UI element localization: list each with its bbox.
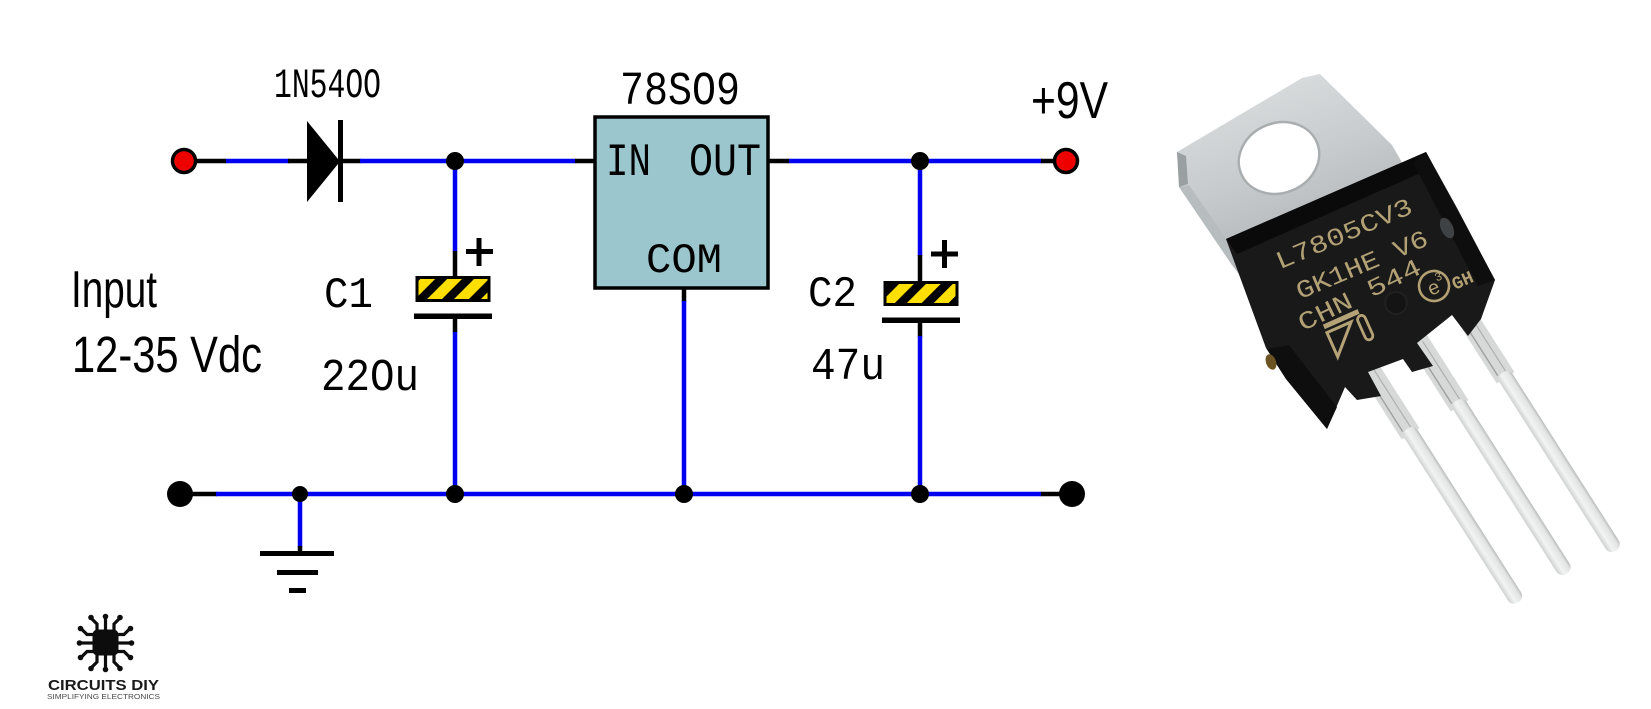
svg-text:COM: COM <box>646 237 722 285</box>
wire IN pin stub <box>575 159 595 164</box>
wire top rail blue right <box>789 159 1042 164</box>
bottom left terminal <box>167 481 193 507</box>
wire C1 vertical blue lower <box>453 332 458 492</box>
regulator U1 78S09 <box>595 117 768 288</box>
wire black at output terminal <box>1041 159 1056 164</box>
svg-text:+9V: +9V <box>1031 72 1108 130</box>
node junction rail C2 <box>911 485 929 503</box>
pin1 dimple <box>1384 291 1408 315</box>
wire diode anode lead <box>288 159 308 164</box>
svg-text:C1: C1 <box>324 271 373 321</box>
leg 1 <box>1359 361 1527 608</box>
wire C1 black into top plate <box>453 251 458 276</box>
ST logo <box>1324 310 1375 357</box>
logo chip icon <box>81 618 130 668</box>
body left dark side <box>1267 345 1337 429</box>
svg-text:47u: 47u <box>811 342 885 393</box>
wire COM pin stub black <box>682 288 687 302</box>
node junction rail ground <box>292 486 308 502</box>
node junction top C1 <box>446 152 464 170</box>
wire C2 vertical blue upper <box>918 163 923 256</box>
wire C2 black into top plate <box>918 255 923 281</box>
svg-text:22Ou: 22Ou <box>321 353 419 404</box>
wire C2 black below bottom plate <box>918 322 923 337</box>
wire ground stub blue <box>298 496 303 547</box>
ground <box>260 554 334 591</box>
e3 mark <box>1414 266 1453 305</box>
svg-text:12-35 Vdc: 12-35 Vdc <box>72 326 262 383</box>
svg-text:Input: Input <box>71 261 157 319</box>
capacitor C1 <box>414 238 493 319</box>
wire top rail blue middle <box>360 159 576 164</box>
body right bevel <box>1413 152 1495 286</box>
wire bottom rail blue <box>216 492 1042 497</box>
tab edge shading left <box>1177 152 1188 187</box>
svg-text:C2: C2 <box>808 270 857 320</box>
leg 2 <box>1408 333 1576 580</box>
svg-text:OUT: OUT <box>689 137 761 189</box>
node junction rail COM <box>675 485 693 503</box>
input terminal <box>173 150 196 173</box>
svg-text:78SO9: 78SO9 <box>620 66 740 119</box>
svg-text:IN: IN <box>606 137 651 189</box>
plastic body <box>1226 152 1495 429</box>
wire bottom rail black left <box>192 492 217 497</box>
wire OUT pin stub <box>768 159 790 164</box>
wire top rail black at input terminal <box>194 159 226 164</box>
diode D1 1N5400 <box>307 120 343 202</box>
svg-text:1N54OO: 1N54OO <box>274 62 381 110</box>
metal tab <box>1177 74 1432 295</box>
wire C1 black below bottom plate <box>453 318 458 333</box>
wire ground stub black <box>298 546 303 553</box>
wire C1 vertical blue upper <box>453 163 458 252</box>
wire diode cathode lead <box>341 159 361 164</box>
bottom right terminal <box>1059 481 1085 507</box>
leg 3 <box>1454 305 1625 557</box>
node junction top C2 <box>911 152 929 170</box>
body right bevel highlight <box>1437 215 1457 240</box>
capacitor C2 <box>882 240 960 323</box>
wire COM vertical blue <box>682 301 687 492</box>
node junction rail C1 <box>446 485 464 503</box>
body top bevel <box>1226 152 1434 254</box>
wire top rail blue left <box>225 159 289 164</box>
body small gold glint <box>1264 353 1279 371</box>
wire C2 vertical blue lower <box>918 336 923 492</box>
wire bottom rail black right <box>1041 492 1060 497</box>
tab hole <box>1228 110 1330 206</box>
output terminal +9V <box>1055 150 1078 173</box>
svg-text:SIMPLIFYING ELECTRONICS: SIMPLIFYING ELECTRONICS <box>47 692 160 701</box>
